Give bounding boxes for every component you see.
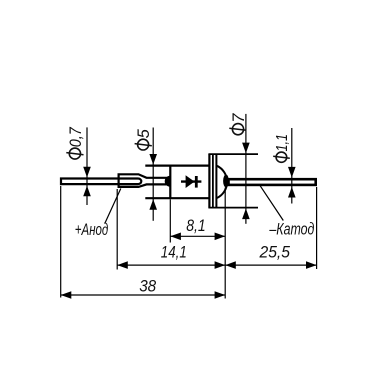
svg-text:25,5: 25,5 bbox=[259, 243, 291, 262]
svg-text:14,1: 14,1 bbox=[161, 243, 187, 262]
extension line from left wire end bbox=[60, 186, 62, 298]
svg-text:5: 5 bbox=[135, 128, 153, 138]
dimension 38 bbox=[61, 276, 226, 299]
svg-text:+Анод: +Анод bbox=[75, 221, 109, 239]
svg-text:1,1: 1,1 bbox=[274, 134, 291, 152]
flange disc (Ø7) bbox=[208, 154, 258, 208]
dimension Ø0,7 bbox=[66, 126, 91, 205]
dome cap bbox=[217, 166, 227, 198]
weld blob left (lead to body) bbox=[165, 176, 170, 186]
dimension 8,1 bbox=[170, 216, 225, 240]
extension line from right wire end bbox=[316, 187, 318, 269]
cathode label leader bbox=[259, 184, 283, 220]
crimp paddle on anode lead bbox=[119, 174, 170, 187]
svg-text:7: 7 bbox=[230, 113, 248, 123]
dimension Ø7 bbox=[229, 113, 249, 224]
anode label leader bbox=[105, 189, 121, 224]
svg-text:–Катод: –Катод bbox=[269, 221, 315, 239]
dimension Ø1,1 bbox=[273, 128, 295, 204]
diode body case bbox=[145, 154, 209, 208]
svg-text:0,7: 0,7 bbox=[67, 126, 85, 147]
dimension Ø5 bbox=[135, 128, 157, 221]
dimension 25,5 bbox=[225, 243, 316, 269]
diode symbol inside body bbox=[181, 175, 201, 188]
svg-text:8,1: 8,1 bbox=[186, 216, 206, 235]
dimension 14,1 bbox=[117, 243, 225, 269]
wire cathode lead (right, Ø1,1) bbox=[229, 179, 316, 185]
weld blob right (dome to cathode lead) bbox=[223, 175, 229, 188]
wire anode lead (left, Ø0,7) bbox=[61, 179, 141, 185]
svg-text:38: 38 bbox=[139, 276, 156, 295]
extension line from paddle left bbox=[116, 189, 118, 270]
extension line at case end bbox=[224, 188, 226, 299]
extension line from body left edge bbox=[169, 199, 171, 242]
